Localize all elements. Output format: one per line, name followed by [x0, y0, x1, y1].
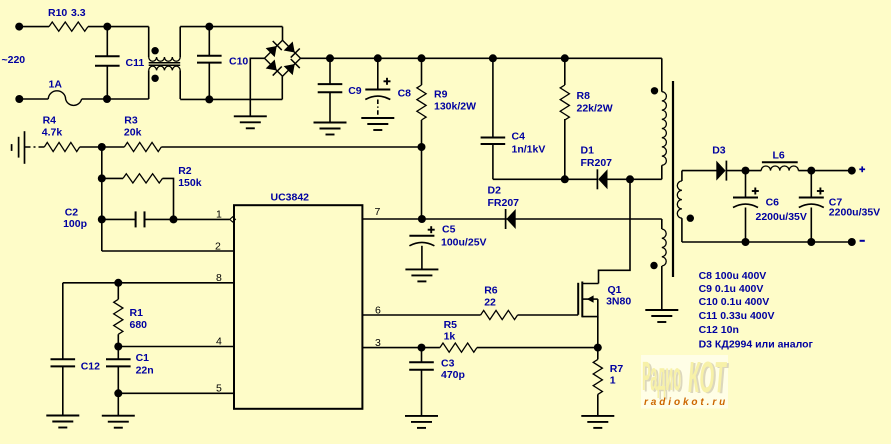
resistor R8: [560, 85, 569, 120]
wire C4 top lead: [492, 58, 494, 137]
node bus R8: [561, 54, 569, 62]
svg-text:D3 КД2994 или аналог: D3 КД2994 или аналог: [699, 339, 814, 351]
svg-text:4.7k: 4.7k: [42, 127, 63, 139]
bridge diode top-left: [266, 41, 282, 57]
inductor L6: [761, 166, 798, 171]
node source sense: [594, 344, 602, 352]
capacitor C3: [409, 361, 434, 363]
wire C10 bottom lead: [208, 63, 210, 100]
svg-text:D1: D1: [581, 145, 595, 157]
svg-text:1A: 1A: [49, 79, 63, 91]
wire C9 top lead: [329, 58, 331, 84]
svg-text:FR207: FR207: [581, 157, 613, 169]
node pin 5: [114, 389, 122, 397]
svg-text:22: 22: [484, 297, 496, 309]
wire pin 5: [118, 392, 234, 394]
svg-text:R9: R9: [434, 88, 448, 100]
resistor R10: [49, 22, 88, 31]
wire secondary top lead: [681, 171, 683, 181]
svg-text:R7: R7: [610, 363, 624, 375]
node C11 bottom: [103, 95, 111, 103]
plus mark C6: [752, 190, 759, 192]
resistor R6: [481, 310, 518, 319]
ground C12: [46, 415, 79, 417]
svg-text:Q1: Q1: [608, 284, 622, 296]
ground C3: [405, 415, 438, 417]
resistor R1: [114, 299, 123, 334]
svg-text:UC3842: UC3842: [271, 192, 310, 204]
wire bridge top stem: [282, 27, 284, 41]
wire C7 bottom lead: [810, 208, 812, 243]
node input terminal N: [15, 95, 23, 103]
wire feedback node down: [101, 147, 103, 251]
wire C11 top lead: [106, 27, 108, 57]
plus mark C5: [428, 229, 435, 231]
node C11 top: [103, 23, 111, 31]
svg-text:7: 7: [375, 206, 381, 218]
wire C6 bottom lead: [745, 208, 747, 243]
label minus output: [860, 240, 865, 242]
wire C7 top lead: [810, 171, 812, 198]
ground C5: [405, 268, 438, 270]
svg-text:C8 100u 400V: C8 100u 400V: [699, 270, 767, 282]
node C6 bottom: [742, 238, 750, 246]
bridge diode top-right: [284, 41, 300, 57]
svg-text:130k/2W: 130k/2W: [434, 101, 476, 113]
wire primary top lead: [661, 58, 663, 91]
svg-text:R6: R6: [484, 285, 498, 297]
wire choke to C10 top: [180, 26, 282, 28]
wire R8 bottom lead: [564, 119, 566, 179]
ground C1: [102, 415, 135, 417]
node minus terminal: [848, 238, 856, 246]
svg-text:C11 0.33u 400V: C11 0.33u 400V: [699, 310, 775, 322]
svg-text:C4: C4: [512, 131, 526, 143]
wire R9 to Vcc vertical: [421, 147, 423, 219]
svg-text:470p: 470p: [441, 369, 465, 381]
transformer aux winding: [662, 229, 666, 266]
wire secondary top rail to D3: [682, 170, 717, 172]
resistor R2: [123, 174, 162, 183]
ground C8: [361, 117, 394, 119]
svg-text:C12: C12: [81, 361, 100, 373]
wire pin 4: [118, 346, 234, 348]
svg-text:3N80: 3N80: [606, 296, 631, 308]
wire C9 bottom lead: [329, 92, 331, 122]
node pin 3: [418, 344, 426, 352]
IC U1 UC3842 box: [234, 205, 362, 409]
ground bridge: [234, 115, 267, 117]
svg-text:22n: 22n: [136, 365, 154, 377]
choke L core: [149, 62, 181, 64]
svg-text:R3: R3: [124, 115, 138, 127]
transformer primary phase dot: [651, 87, 658, 94]
bridge rectifier frame: [265, 40, 301, 76]
svg-text:C5: C5: [442, 224, 456, 236]
wire drain vertical: [599, 179, 631, 283]
svg-text:R5: R5: [444, 319, 458, 331]
node C2 right: [170, 215, 178, 223]
wire C3 bottom lead: [421, 370, 423, 416]
inductor L6 core bar: [762, 161, 798, 163]
wire output bottom rail: [682, 241, 852, 243]
wire dash-dot to R4: [25, 146, 45, 148]
svg-text:C12 10n: C12 10n: [699, 324, 739, 336]
wire C2 right lead to pin1: [145, 218, 230, 220]
wire pin 2: [102, 250, 234, 252]
fuse FU 1A: [48, 91, 81, 106]
transformer core: [672, 81, 674, 277]
svg-text:C10: C10: [229, 56, 248, 68]
wire C6 top lead: [745, 171, 747, 198]
choke L bottom winding: [149, 66, 181, 70]
ground C9: [314, 122, 347, 124]
node snubber R8: [561, 175, 569, 183]
wire R8 top lead: [564, 58, 566, 85]
svg-text:2200u/35V: 2200u/35V: [829, 207, 880, 219]
wire R7 bottom lead: [597, 394, 599, 416]
diode D2: [505, 209, 507, 229]
capacitor C1: [106, 358, 131, 360]
plus mark C7: [817, 190, 824, 192]
resistor R4: [44, 142, 79, 151]
svg-text:150k: 150k: [178, 177, 202, 189]
wire R9 bottom lead: [421, 120, 423, 147]
wire bridge minus to ground: [250, 58, 264, 116]
wire C12 top lead: [62, 283, 64, 359]
svg-text:D3: D3: [712, 145, 726, 157]
node bus C4: [489, 54, 497, 62]
svg-text:C1: C1: [136, 352, 150, 364]
wire fuse to choke: [82, 98, 149, 100]
resistor R5: [440, 343, 477, 352]
wire top-left live rail: [19, 26, 49, 28]
wire pin 8: [63, 282, 234, 284]
capacitor C2: [135, 211, 137, 227]
wire C10 top lead: [208, 27, 210, 56]
svg-text:680: 680: [130, 319, 148, 331]
node C7 bottom: [807, 238, 815, 246]
wire R1 top lead: [117, 283, 119, 300]
wire R2 left lead: [102, 177, 123, 179]
svg-text:C11: C11: [126, 57, 145, 69]
wire snubber rail: [493, 178, 598, 180]
bridge diode bottom-right: [284, 59, 300, 75]
svg-text:C8: C8: [398, 88, 412, 100]
svg-text:R1: R1: [130, 307, 144, 319]
diode D3: [725, 161, 727, 181]
wire aux top lead: [661, 219, 663, 229]
choke L phase dot top: [151, 47, 158, 54]
svg-text:C6: C6: [766, 197, 780, 209]
wire source down: [597, 317, 599, 348]
svg-text:C2: C2: [65, 207, 79, 219]
choke L right top lead: [179, 27, 181, 57]
battery symbol input sense: [11, 144, 13, 151]
wire C5 bottom lead: [421, 246, 423, 270]
choke L phase dot bottom: [151, 75, 158, 82]
choke L top winding: [149, 57, 181, 61]
bridge diode bottom-left: [266, 59, 282, 75]
svg-text:L6: L6: [773, 150, 785, 162]
node drain branch: [626, 175, 634, 183]
svg-text:Радио: Радио: [642, 355, 681, 400]
ground R7: [581, 415, 614, 417]
svg-text:~220: ~220: [2, 54, 26, 66]
wire pin 3 to R5: [362, 347, 440, 349]
choke L left top lead: [148, 27, 150, 57]
svg-text:1: 1: [610, 375, 616, 387]
svg-text:C9 0.1u 400V: C9 0.1u 400V: [699, 283, 764, 295]
svg-text:D2: D2: [488, 185, 502, 197]
svg-text:3.3: 3.3: [71, 7, 86, 19]
capacitor C7 electrolytic: [799, 197, 824, 199]
wire DC bus: [301, 57, 662, 59]
wire R10 to C11 node: [88, 26, 149, 28]
choke L right bottom lead: [179, 70, 181, 99]
node feedback: [98, 143, 106, 151]
svg-text:R8: R8: [577, 90, 591, 102]
svg-text:22k/2W: 22k/2W: [577, 103, 613, 115]
label plus output: [859, 168, 865, 170]
wire feedback rail R3 to R9: [161, 146, 421, 148]
choke L left bottom lead: [148, 70, 150, 99]
wire C8 top lead: [377, 58, 379, 89]
transformer aux phase dot: [650, 262, 657, 269]
resistor R3: [124, 142, 161, 151]
node C7 top: [807, 167, 815, 175]
transformer primary winding: [662, 92, 667, 166]
resistor R9: [417, 85, 426, 120]
node R9 feedback rail: [418, 143, 426, 151]
svg-text:1n/1kV: 1n/1kV: [512, 144, 546, 156]
node bus C8: [374, 54, 382, 62]
capacitor C12: [51, 358, 76, 360]
wire L6 to plus terminal: [798, 170, 851, 172]
svg-text:R10: R10: [48, 7, 67, 19]
node C6 top: [742, 167, 750, 175]
watermark panel: [641, 355, 728, 409]
wire D3 to L6: [726, 170, 761, 172]
wire C4 bottom lead: [492, 144, 494, 179]
node plus terminal: [848, 167, 856, 175]
node Vcc: [418, 215, 426, 223]
wire choke to bridge bottom: [180, 98, 282, 100]
capacitor C8 electrolytic: [365, 89, 390, 91]
transformer secondary phase dot: [687, 215, 694, 222]
transistor Q1 gate bar: [577, 283, 579, 315]
wire secondary bottom lead: [681, 218, 683, 242]
transistor Q1 substrate arrow: [582, 298, 598, 300]
wire R9 top lead: [421, 58, 423, 85]
node bus R9: [418, 54, 426, 62]
node R2 left: [98, 174, 106, 182]
transformer secondary winding: [677, 181, 682, 218]
wire C2 left lead: [102, 218, 136, 220]
diode D1: [596, 169, 598, 189]
node C10 bottom: [205, 95, 213, 103]
svg-text:C9: C9: [348, 85, 362, 97]
capacitor C6 electrolytic: [733, 197, 758, 199]
svg-text:C10 0.1u 400V: C10 0.1u 400V: [699, 296, 770, 308]
wire R4 to node: [80, 146, 125, 148]
node C2 left: [98, 215, 106, 223]
svg-text:C3: C3: [441, 358, 455, 370]
wire R2 right lead: [163, 178, 174, 219]
resistor R7: [593, 359, 602, 394]
svg-text:R2: R2: [178, 165, 192, 177]
transistor Q1 drain stub: [582, 283, 598, 285]
svg-text:100p: 100p: [63, 218, 87, 230]
wire C11 bottom lead: [106, 66, 108, 99]
wire bridge bottom stem: [281, 76, 283, 99]
transistor Q1 channel bar: [581, 282, 583, 318]
capacitor C9: [318, 83, 343, 85]
svg-text:1k: 1k: [444, 331, 456, 343]
node input terminal L: [15, 23, 23, 31]
capacitor C4: [481, 137, 506, 139]
capacitor C10: [197, 55, 222, 57]
node C10 top: [205, 23, 213, 31]
svg-text:2200u/35V: 2200u/35V: [756, 211, 807, 223]
ground aux winding: [645, 309, 678, 311]
wire R5 to source node: [477, 347, 598, 349]
node bus C9: [326, 54, 334, 62]
node R1 top: [114, 279, 122, 287]
wire aux bottom lead: [661, 266, 663, 310]
svg-text:radiokot.ru: radiokot.ru: [644, 397, 728, 408]
wire pin7 rail: [362, 218, 661, 220]
svg-text:КОТ: КОТ: [688, 353, 727, 402]
svg-text:R4: R4: [43, 115, 57, 127]
wire R1 bottom lead: [117, 334, 119, 359]
svg-text:FR207: FR207: [488, 197, 520, 209]
wire C8 bottom lead dash-dot: [377, 100, 379, 119]
svg-text:20k: 20k: [124, 127, 142, 139]
wire pin 6 to R6: [362, 314, 480, 316]
wire C1 bottom lead: [117, 366, 119, 415]
wire R7 top lead: [597, 348, 599, 360]
wire C3 top lead: [421, 348, 423, 363]
wire terminal N to fuse: [19, 98, 48, 100]
transistor Q1 source stub: [582, 299, 598, 317]
plus mark C8: [384, 80, 391, 82]
capacitor C11: [95, 55, 120, 57]
wire primary bottom lead: [661, 165, 663, 179]
node pin 4: [114, 343, 122, 351]
wire C12 bottom lead: [62, 366, 64, 415]
wire R6 to gate: [518, 314, 579, 316]
pin 1 diamond: [230, 217, 236, 222]
svg-text:100u/25V: 100u/25V: [441, 237, 487, 249]
wire D1 to primary bottom: [607, 178, 661, 180]
capacitor C5 electrolytic: [409, 235, 434, 237]
